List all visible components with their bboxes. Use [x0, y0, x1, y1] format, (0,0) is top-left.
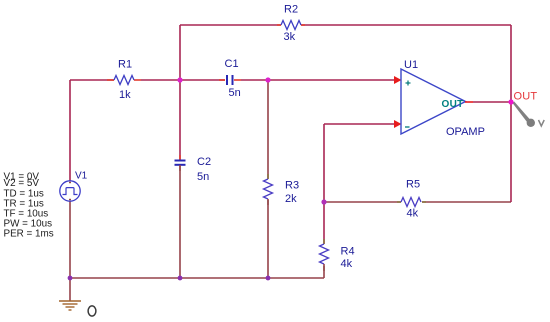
svg-text:R3: R3 [285, 180, 299, 192]
svg-text:OPAMP: OPAMP [446, 126, 485, 138]
wire C2 bottom to bottom row [179, 165, 181, 278]
pin arrow minus input [394, 120, 402, 128]
wire top horizontal right of R2 [301, 24, 511, 26]
wire R5 row right segment [422, 201, 511, 203]
svg-text:5n: 5n [197, 171, 209, 183]
resistor R3 [264, 174, 273, 205]
voltage marker probe [513, 102, 545, 128]
svg-text:V2 = 5V: V2 = 5V [4, 178, 40, 189]
svg-text:2k: 2k [285, 193, 297, 205]
op-amp U1 [401, 69, 466, 134]
svg-text:C1: C1 [225, 58, 239, 70]
svg-text:R1: R1 [118, 59, 132, 71]
wire bottom row [70, 277, 324, 279]
wire R5 row left segment [324, 201, 401, 203]
wire minus input: vertical x=324 corner down to R5 junction [323, 124, 325, 244]
svg-text:5n: 5n [229, 87, 241, 99]
wire left vertical from V1 down to bottom row [69, 201, 71, 278]
resistor R5 [397, 198, 426, 207]
junction at output node [508, 99, 513, 104]
resistor R2 [277, 21, 305, 30]
svg-text:U1: U1 [404, 59, 418, 71]
junction at R1/C2/R2 node [177, 77, 182, 82]
junction at R4/R5 node [321, 199, 326, 204]
svg-text:4k: 4k [407, 208, 419, 220]
wire vertical x=268 from R1 row to R3 [267, 80, 269, 179]
wire right vertical x=511 [510, 25, 512, 202]
ground label 0 [88, 306, 96, 316]
source parameter text [4, 172, 54, 240]
svg-text:V1: V1 [75, 171, 88, 182]
wire middle vertical x=180 (top wire to C2 to bottom) [179, 25, 181, 160]
wire R1 row: R1 to C1 [141, 79, 225, 81]
wire op-amp output red stub [465, 101, 473, 103]
svg-text:R2: R2 [284, 4, 298, 16]
resistor R1 [107, 76, 141, 85]
wire R1 row: corner to R1 [70, 79, 114, 81]
svg-text:3k: 3k [284, 31, 296, 43]
wire R1 row: C1 to op-amp plus input [241, 79, 394, 81]
svg-text:R4: R4 [341, 246, 355, 258]
ground [59, 278, 81, 310]
capacitor C2 [175, 155, 186, 171]
resistor R4 [320, 239, 329, 271]
svg-text:R5: R5 [406, 179, 420, 191]
svg-text:C2: C2 [197, 156, 211, 168]
wire R3 bottom to bottom row [267, 199, 269, 278]
voltage source V1 [60, 181, 80, 201]
svg-text:PER = 1ms: PER = 1ms [4, 229, 54, 240]
wire output to right vertical [473, 101, 511, 103]
junction at V1/ground node [68, 276, 73, 281]
wire top horizontal left of R2 [180, 24, 281, 26]
junction at R3 bottom node [266, 276, 271, 281]
pin arrow plus input [394, 76, 402, 84]
wire R4 bottom stub [323, 264, 325, 278]
capacitor C1 [219, 75, 241, 85]
svg-text:4k: 4k [341, 258, 353, 270]
junction at C1/R3 node [265, 77, 270, 82]
wire minus input horizontal [324, 123, 394, 125]
svg-text:1k: 1k [119, 89, 131, 101]
junction at C2 bottom node [178, 276, 183, 281]
svg-text:OUT: OUT [514, 91, 538, 103]
svg-text:OUT: OUT [442, 99, 464, 110]
wire left vertical from R1 row down to V1 [69, 80, 71, 181]
